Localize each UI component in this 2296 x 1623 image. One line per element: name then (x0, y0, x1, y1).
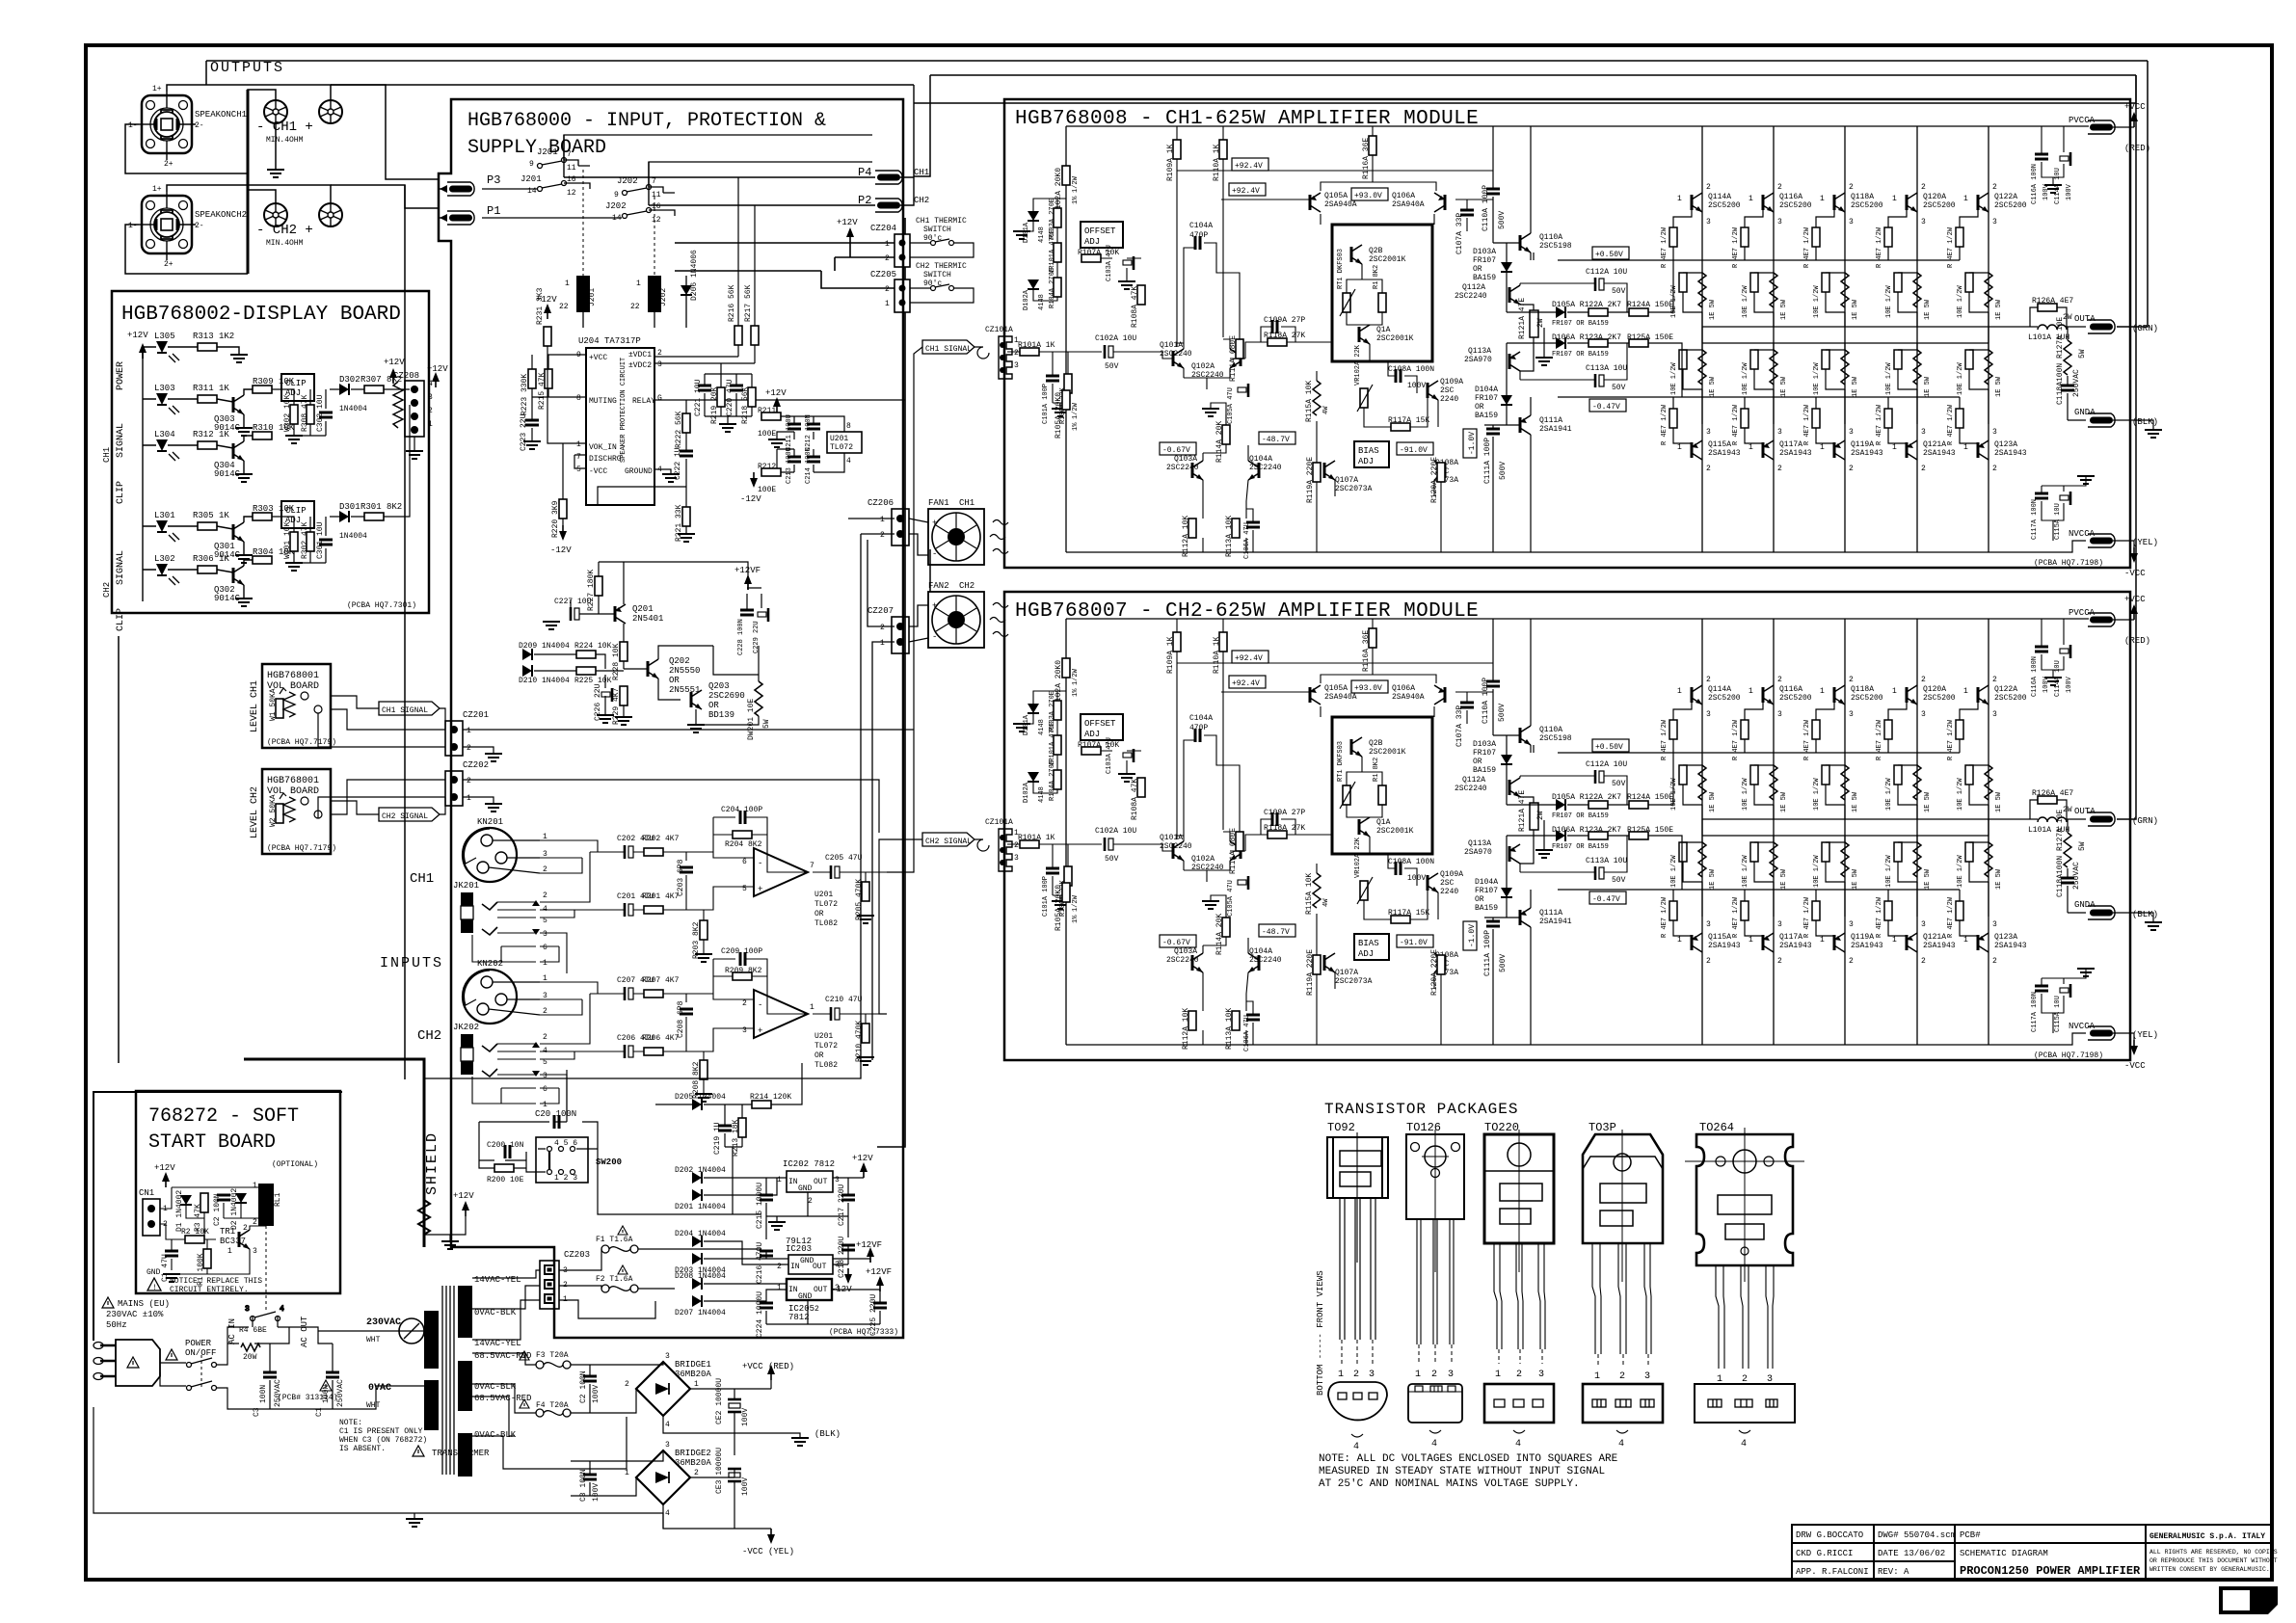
svg-text:IC202 7812: IC202 7812 (783, 1159, 835, 1169)
svg-text:7: 7 (810, 862, 814, 870)
svg-text:1: 1 (543, 959, 547, 968)
CLIP ADJ box CH2 (281, 501, 314, 528)
mains plug (93, 1340, 160, 1386)
svg-text:3: 3 (1369, 1370, 1375, 1380)
+12V arrow CZ208 (432, 372, 440, 387)
svg-text:+12V: +12V (765, 388, 787, 398)
wires muting right (598, 357, 905, 534)
resistor R301 (364, 513, 384, 520)
+12V arrow CZ204 (846, 227, 854, 243)
op-amp U201 (CH1) (754, 848, 808, 896)
svg-text:CH1: CH1 (959, 498, 974, 508)
svg-text:3: 3 (253, 1247, 257, 1256)
ground shield (441, 1241, 459, 1249)
svg-text:Q203: Q203 (708, 681, 730, 691)
svg-text:U201: U201 (814, 1032, 833, 1041)
svg-text:3: 3 (665, 1441, 670, 1450)
NOTICE text (147, 1278, 161, 1290)
LED L302 (154, 554, 179, 585)
svg-text:1-: 1- (128, 222, 138, 230)
svg-text:2: 2 (885, 285, 890, 294)
svg-text:3: 3 (428, 393, 433, 402)
svg-text:GROUND: GROUND (625, 467, 653, 476)
svg-text:2: 2 (625, 1380, 629, 1389)
svg-text:3: 3 (1538, 1370, 1544, 1380)
svg-text:J202: J202 (605, 201, 627, 211)
transformer primary winding (424, 1311, 439, 1369)
LED L304 (154, 430, 179, 461)
svg-text:0VAC: 0VAC (368, 1383, 391, 1394)
svg-text:D202 1N4004: D202 1N4004 (675, 1166, 726, 1175)
svg-text:F2 T1.6A: F2 T1.6A (596, 1275, 633, 1284)
svg-text:AT 25'C AND NOMINAL MAINS VOLT: AT 25'C AND NOMINAL MAINS VOLTAGE SUPPLY… (1319, 1478, 1580, 1490)
svg-text:11: 11 (567, 164, 576, 173)
svg-text:!: ! (152, 1284, 157, 1292)
svg-text:6: 6 (742, 858, 747, 866)
svg-text:SPEAKONCH2: SPEAKONCH2 (195, 210, 247, 220)
svg-text:100E: 100E (758, 430, 776, 439)
svg-text:FAN1: FAN1 (928, 498, 949, 508)
XLR connector KN201 (463, 817, 547, 882)
svg-text:C3 100N: C3 100N (579, 1469, 588, 1502)
svg-text:CZ207: CZ207 (868, 606, 894, 616)
svg-text:R219 20K: R219 20K (710, 386, 719, 424)
wire L303 row (143, 389, 253, 428)
svg-text:50Hz: 50Hz (106, 1320, 127, 1330)
svg-text:GND: GND (147, 1268, 161, 1277)
svg-text:-VCC (YEL): -VCC (YEL) (742, 1547, 794, 1556)
connector P1 (447, 211, 474, 225)
jumper J202 (623, 185, 652, 219)
svg-text:1: 1 (428, 420, 433, 429)
resistor R221 33K (682, 507, 690, 526)
connector CZ204 (894, 234, 910, 267)
svg-text:R215 47K: R215 47K (538, 372, 547, 410)
svg-text:SWITCH: SWITCH (923, 226, 951, 234)
svg-text:-: - (932, 549, 937, 559)
wire P4/P2 edge notch (877, 99, 903, 231)
svg-text:LEVEL CH1: LEVEL CH1 (250, 680, 260, 732)
svg-text:CZ205: CZ205 (870, 270, 896, 279)
svg-text:8: 8 (846, 422, 851, 431)
svg-text:+: + (932, 601, 937, 611)
+12V arrow R231 (544, 304, 551, 319)
-12V arrow R212 (750, 472, 758, 488)
resistor R3 47K (200, 1193, 208, 1212)
svg-text:2: 2 (1431, 1370, 1437, 1380)
svg-text:CZ203: CZ203 (564, 1250, 590, 1260)
svg-text:CH2: CH2 (102, 582, 112, 598)
svg-text:2: 2 (814, 1305, 819, 1314)
relay contact dashed (265, 1226, 267, 1311)
svg-text:BC337: BC337 (220, 1237, 246, 1246)
LED L303 (154, 384, 179, 414)
svg-text:100V: 100V (741, 1408, 750, 1426)
wire L304 row (143, 436, 253, 474)
svg-text:W302 10K: W302 10K (283, 394, 292, 432)
svg-text:5: 5 (576, 466, 581, 474)
svg-text:2: 2 (428, 407, 433, 415)
svg-text:3: 3 (1644, 1371, 1650, 1382)
CH1 amplifier module HGB768008 (985, 99, 2162, 578)
wire CZ204 CZ205 bus (675, 218, 905, 1147)
svg-text:R305 1K: R305 1K (193, 511, 229, 520)
svg-text:HGB768001: HGB768001 (267, 776, 319, 786)
svg-text:(PCBA HQ7.7179): (PCBA HQ7.7179) (267, 844, 336, 853)
LED L305 (154, 332, 179, 362)
resistor R214 120K (752, 1101, 771, 1108)
diode D205 1N4004 (692, 1099, 702, 1110)
vol board CH1 HGB768001 (250, 664, 336, 748)
RC cluster R218 R219 C221 C220 (698, 386, 711, 390)
svg-text:D209 1N4004: D209 1N4004 (519, 642, 570, 651)
svg-text:+: + (758, 885, 762, 894)
wire bus to CH2 module output (405, 185, 930, 1079)
svg-text:J201: J201 (521, 174, 542, 184)
resistor R1 100K (203, 1249, 211, 1268)
svg-text:JK201: JK201 (453, 881, 479, 891)
svg-text:D204 1N4004: D204 1N4004 (675, 1230, 726, 1238)
transistor Q303 (233, 395, 244, 414)
svg-text:5: 5 (742, 885, 747, 893)
svg-text:R204 8K2: R204 8K2 (725, 840, 762, 849)
wires CZ206-FAN1 (424, 519, 928, 1078)
svg-text:DATE 13/06/02: DATE 13/06/02 (1878, 1549, 1945, 1558)
transformer warning (413, 1446, 424, 1456)
svg-text:R302 47K: R302 47K (301, 521, 309, 559)
transistor Q201 2N5401 (615, 604, 626, 624)
svg-text:3: 3 (543, 930, 547, 939)
relay RL1 (258, 1184, 274, 1226)
svg-text:R202 4K7: R202 4K7 (642, 835, 680, 843)
resistor R309 (253, 386, 272, 393)
svg-text:NOTE:: NOTE: (339, 1419, 362, 1427)
svg-text:HGB768008 - CH1-625W AMPLIFIER: HGB768008 - CH1-625W AMPLIFIER MODULE (1015, 108, 1479, 130)
package TO3P (1583, 1121, 1663, 1450)
capacitor C207 47U (617, 976, 654, 1000)
svg-text:TO220: TO220 (1484, 1121, 1519, 1134)
fuse F1 T1.6A (596, 1226, 638, 1253)
wires bridge2 (571, 1433, 771, 1529)
svg-text:C1 IS PRESENT ONLY: C1 IS PRESENT ONLY (339, 1427, 423, 1436)
regulator IC202 7812 (787, 1171, 833, 1192)
svg-text:F4 T20A: F4 T20A (536, 1401, 569, 1410)
diode D206 1N4006 (681, 285, 692, 295)
svg-text:R212: R212 (758, 463, 776, 471)
svg-text:D208 1N4004: D208 1N4004 (675, 1272, 726, 1281)
svg-text:IS ABSENT.: IS ABSENT. (339, 1445, 386, 1453)
svg-text:R301 8K2: R301 8K2 (360, 502, 402, 512)
svg-text:14VAC-YEL: 14VAC-YEL (474, 1275, 521, 1285)
svg-text:1N4004: 1N4004 (339, 405, 367, 413)
wire L305 row (143, 347, 239, 359)
capacitor C215 1000U (760, 1195, 773, 1200)
transistor Q302 (233, 566, 244, 585)
svg-text:2: 2 (880, 531, 885, 540)
capacitors C228 C229 (740, 610, 754, 615)
svg-text:CH1: CH1 (410, 871, 434, 887)
svg-text:(BLK): (BLK) (814, 1429, 841, 1439)
svg-text:+12V: +12V (127, 331, 148, 340)
svg-text:7: 7 (576, 453, 581, 462)
svg-text:F1 T1.6A: F1 T1.6A (596, 1236, 633, 1244)
ground Q304 (235, 474, 253, 482)
svg-text:2: 2 (1353, 1370, 1359, 1380)
connector CZ202 (445, 771, 463, 806)
diode D203 1N4004 (692, 1253, 702, 1264)
svg-text:OR: OR (669, 676, 680, 685)
svg-text:ON/OFF: ON/OFF (185, 1348, 216, 1358)
svg-text:OUT: OUT (814, 1286, 828, 1294)
svg-text:J201: J201 (588, 288, 597, 306)
svg-text:SW200: SW200 (596, 1157, 622, 1167)
ground main (406, 1519, 423, 1527)
svg-text:2: 2 (243, 1224, 248, 1233)
svg-text:1: 1 (625, 1469, 629, 1477)
switch SW200 (536, 1137, 588, 1183)
svg-text:CZ201: CZ201 (463, 710, 489, 720)
svg-text:C214 100N: C214 100N (805, 447, 813, 484)
binding post CH1 - (264, 100, 287, 123)
package TO264 (1685, 1121, 1804, 1450)
svg-text:J202: J202 (659, 288, 668, 306)
svg-text:2: 2 (808, 1197, 813, 1206)
resistor R204 8K2 (733, 831, 752, 838)
trimmer W301 network CH2 (272, 517, 333, 571)
+12V arrow soft start (162, 1172, 170, 1187)
svg-text:4: 4 (1741, 1439, 1747, 1450)
binding post CH2 + (319, 203, 342, 226)
svg-text:P1: P1 (487, 204, 500, 218)
svg-text:SHIELD: SHIELD (424, 1131, 441, 1195)
svg-text:1: 1 (576, 440, 581, 449)
svg-text:5W: 5W (762, 719, 771, 729)
svg-text:OUT: OUT (813, 1263, 827, 1271)
svg-text:C210 47U: C210 47U (825, 996, 863, 1004)
transistor Q301 (233, 522, 244, 542)
svg-text:36MB20A: 36MB20A (675, 1458, 711, 1468)
regulator IC205 7812 (787, 1279, 832, 1300)
svg-text:2: 2 (543, 1033, 547, 1042)
svg-text:1: 1 (885, 300, 890, 308)
svg-text:IN: IN (788, 1286, 798, 1294)
svg-text:TL072: TL072 (814, 1042, 838, 1051)
relay coil J202 (648, 276, 661, 312)
resistor ladder CZ208 (393, 382, 403, 428)
svg-text:3: 3 (835, 1284, 840, 1292)
wires IC205 (704, 1284, 880, 1324)
svg-text:- CH1 +: - CH1 + (256, 120, 313, 135)
svg-text:-: - (932, 632, 937, 642)
wire outputs to top rail (206, 61, 2148, 85)
vol board CH2 HGB768001 (250, 769, 336, 854)
connector CZ207 (892, 617, 909, 653)
svg-text:100V: 100V (592, 1483, 601, 1502)
capacitor C203 6P8 (680, 867, 693, 872)
svg-text:R221 33K: R221 33K (675, 504, 683, 542)
svg-text:U201: U201 (814, 891, 833, 899)
transistor TR1 BC337 (239, 1230, 250, 1249)
svg-text:DISCHRG: DISCHRG (589, 455, 622, 464)
+12V arrow (clip CH1) (389, 368, 397, 384)
svg-text:1: 1 (636, 279, 641, 288)
svg-text:9: 9 (614, 191, 619, 200)
binding post CH1 + (319, 100, 342, 123)
svg-text:R217 56K: R217 56K (744, 284, 753, 322)
svg-text:START BOARD: START BOARD (148, 1131, 276, 1154)
resistor R4 6BE 20W (241, 1344, 260, 1351)
svg-text:7: 7 (567, 150, 572, 159)
svg-text:12: 12 (652, 216, 661, 225)
svg-text:1: 1 (565, 279, 570, 288)
MAINS label (102, 1297, 114, 1308)
package TO126 (1406, 1121, 1464, 1450)
wire clip row CH1 (330, 388, 410, 390)
capacitor CE3 10000U (715, 1448, 750, 1496)
svg-text:OR: OR (814, 910, 824, 918)
svg-text:3: 3 (245, 1305, 250, 1314)
svg-text:1+: 1+ (152, 185, 162, 194)
svg-text:1: 1 (694, 1380, 699, 1389)
ground R313 (230, 355, 248, 362)
op-amp U201 (CH2) (754, 990, 808, 1038)
fuse F2 T1.6A (596, 1265, 638, 1292)
svg-text:C2 100N: C2 100N (579, 1370, 588, 1403)
svg-text:36MB20A: 36MB20A (675, 1370, 711, 1379)
ground CZ208 (406, 451, 423, 459)
wires transformer secondary (472, 1270, 627, 1469)
resistor R207 4K7 (644, 990, 663, 998)
svg-text:SIGNAL: SIGNAL (116, 423, 126, 458)
svg-text:1: 1 (777, 1284, 782, 1292)
svg-text:2: 2 (1516, 1370, 1522, 1380)
display board left labels (102, 361, 126, 631)
svg-text:TL082: TL082 (814, 1061, 838, 1070)
svg-text:R231 3K3: R231 3K3 (536, 287, 545, 325)
resistor R208 8K2 (700, 1060, 707, 1079)
diode D201 1N4004 (692, 1189, 702, 1201)
svg-text:2: 2 (1619, 1371, 1625, 1382)
connector P2 (875, 199, 902, 212)
diode D2 1N4002 (235, 1193, 247, 1203)
resistor R213 18K (738, 1118, 746, 1137)
jack JK202 (453, 1023, 547, 1109)
svg-text:D210 1N4004: D210 1N4004 (519, 677, 570, 685)
svg-text:D206 1N4006: D206 1N4006 (690, 250, 699, 301)
svg-text:+12VF: +12VF (866, 1267, 892, 1277)
capacitor C208 6P8 (680, 1009, 693, 1014)
230VAC meter (399, 1318, 424, 1344)
resistor R304 (253, 556, 272, 564)
svg-text:1: 1 (467, 727, 471, 735)
svg-text:R216 56K: R216 56K (728, 284, 736, 322)
diode D209 (522, 649, 532, 660)
svg-text:P3: P3 (487, 173, 500, 187)
+12VF arrow (867, 1247, 874, 1263)
svg-text:1-: 1- (128, 121, 138, 130)
svg-text:TRANSFORMER: TRANSFORMER (432, 1449, 490, 1458)
svg-text:C213 100U: C213 100U (786, 447, 793, 484)
wires J201/J202 region (482, 135, 872, 328)
svg-text:L301: L301 (154, 511, 175, 520)
diode D204 1N4004 (692, 1236, 702, 1247)
wires opamp supply (781, 416, 844, 472)
svg-text:POWER: POWER (185, 1339, 212, 1348)
svg-text:BRIDGE2: BRIDGE2 (675, 1449, 711, 1458)
svg-text:+12V: +12V (837, 218, 858, 227)
svg-text:TO3P: TO3P (1589, 1121, 1616, 1134)
capacitor C3 100N 250VAC (soft) (263, 1372, 277, 1377)
svg-text:OR: OR (814, 1051, 824, 1060)
svg-text:LEVEL CH2: LEVEL CH2 (250, 786, 260, 838)
ground C211 (768, 439, 786, 447)
svg-text:2: 2 (742, 999, 747, 1008)
svg-text:+VCC: +VCC (589, 354, 607, 362)
svg-text:8: 8 (576, 394, 581, 403)
svg-text:7: 7 (652, 177, 656, 186)
+12V arrow R211 (773, 397, 781, 412)
svg-text:R220 3K9: R220 3K9 (551, 500, 560, 538)
svg-text:7812: 7812 (788, 1313, 810, 1322)
svg-text:WRITTEN CONSENT BY GENERALMUSI: WRITTEN CONSENT BY GENERALMUSIC. (2149, 1566, 2270, 1573)
ground Q302 (235, 599, 253, 606)
svg-text:+12V: +12V (536, 295, 557, 305)
svg-text:R201 4K7: R201 4K7 (642, 892, 680, 901)
svg-text:R209 8K2: R209 8K2 (725, 967, 762, 975)
relay coil J201 (576, 276, 590, 312)
svg-text:CH2 THERMIC: CH2 THERMIC (916, 262, 967, 271)
svg-text:KN202: KN202 (477, 959, 503, 969)
muting IC U204 TA7317P (586, 348, 654, 505)
svg-text:3: 3 (835, 1176, 840, 1184)
svg-text:INPUTS: INPUTS (380, 955, 443, 971)
svg-text:-: - (758, 859, 762, 868)
svg-text:R311 1K: R311 1K (193, 384, 229, 393)
svg-text:CH2: CH2 (959, 581, 974, 591)
resistor R307 (364, 386, 384, 393)
package TO92 (1327, 1121, 1388, 1452)
wire CH1 output bus (125, 85, 439, 179)
svg-text:RL1: RL1 (274, 1192, 282, 1207)
svg-text:CH2: CH2 (417, 1028, 441, 1044)
connector CZ208 (405, 381, 424, 437)
svg-text:ALL RIGHTS ARE RESERVED, NO CO: ALL RIGHTS ARE RESERVED, NO COPIES (2149, 1549, 2278, 1556)
wire clip row CH2 (330, 405, 410, 517)
svg-text:APP. R.FALCONI: APP. R.FALCONI (1796, 1567, 1869, 1577)
svg-text:R214 120K: R214 120K (750, 1093, 791, 1102)
svg-text:BRIDGE1: BRIDGE1 (675, 1360, 711, 1370)
wires fuses (559, 1249, 761, 1318)
CH1 SIGNAL flag (379, 702, 440, 715)
resistor R312 (198, 441, 217, 449)
wire input bus CH2 (540, 982, 617, 1115)
CH2 amplifier module HGB768007 (985, 592, 2162, 1071)
fold mark (2219, 1586, 2278, 1614)
svg-text:OUT: OUT (814, 1178, 828, 1186)
svg-text:2: 2 (467, 777, 471, 785)
svg-text:NOTICE: REPLACE THIS: NOTICE: REPLACE THIS (170, 1277, 262, 1286)
ground R221 (678, 534, 695, 542)
svg-text:PCB#: PCB# (1960, 1530, 1981, 1540)
svg-text:C218 220U: C218 220U (838, 1237, 846, 1278)
-12V arrow IC203 (844, 1268, 852, 1284)
capacitor CE2 10000U (715, 1378, 750, 1426)
svg-text:CKD G.RICCI: CKD G.RICCI (1796, 1549, 1853, 1558)
diode D301 (339, 511, 349, 522)
fan FAN1 (928, 498, 1008, 565)
capacitor C226 22U (601, 688, 612, 702)
svg-text:2: 2 (543, 891, 547, 900)
